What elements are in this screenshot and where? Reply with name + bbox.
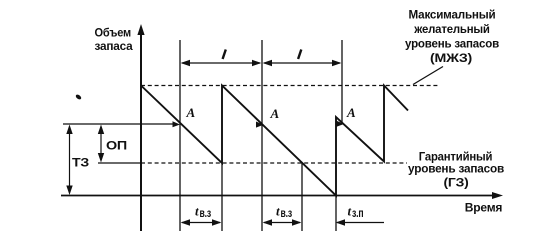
svg-text:t: t [348, 204, 352, 219]
svg-text:A: A [186, 105, 196, 120]
svg-text:Время: Время [465, 201, 503, 215]
svg-text:A: A [346, 105, 356, 120]
svg-text:Максимальный: Максимальный [409, 8, 496, 22]
svg-text:уровень запасов: уровень запасов [405, 37, 499, 51]
svg-text:Объем: Объем [95, 26, 132, 40]
svg-text:(ГЗ): (ГЗ) [444, 176, 469, 190]
svg-text:t: t [276, 204, 280, 219]
svg-text:в.з: в.з [281, 206, 293, 220]
svg-text:желательный: желательный [413, 22, 489, 36]
svg-text:A: A [270, 106, 280, 121]
svg-text:в.з: в.з [200, 206, 212, 220]
svg-text:з.п: з.п [352, 206, 364, 220]
svg-text:ТЗ: ТЗ [72, 156, 89, 170]
svg-text:t: t [195, 204, 199, 219]
svg-text:ОП: ОП [106, 139, 127, 153]
svg-text:(МЖЗ): (МЖЗ) [430, 51, 472, 65]
svg-text:уровень запасов: уровень запасов [408, 162, 504, 176]
svg-text:запаса: запаса [95, 39, 134, 53]
